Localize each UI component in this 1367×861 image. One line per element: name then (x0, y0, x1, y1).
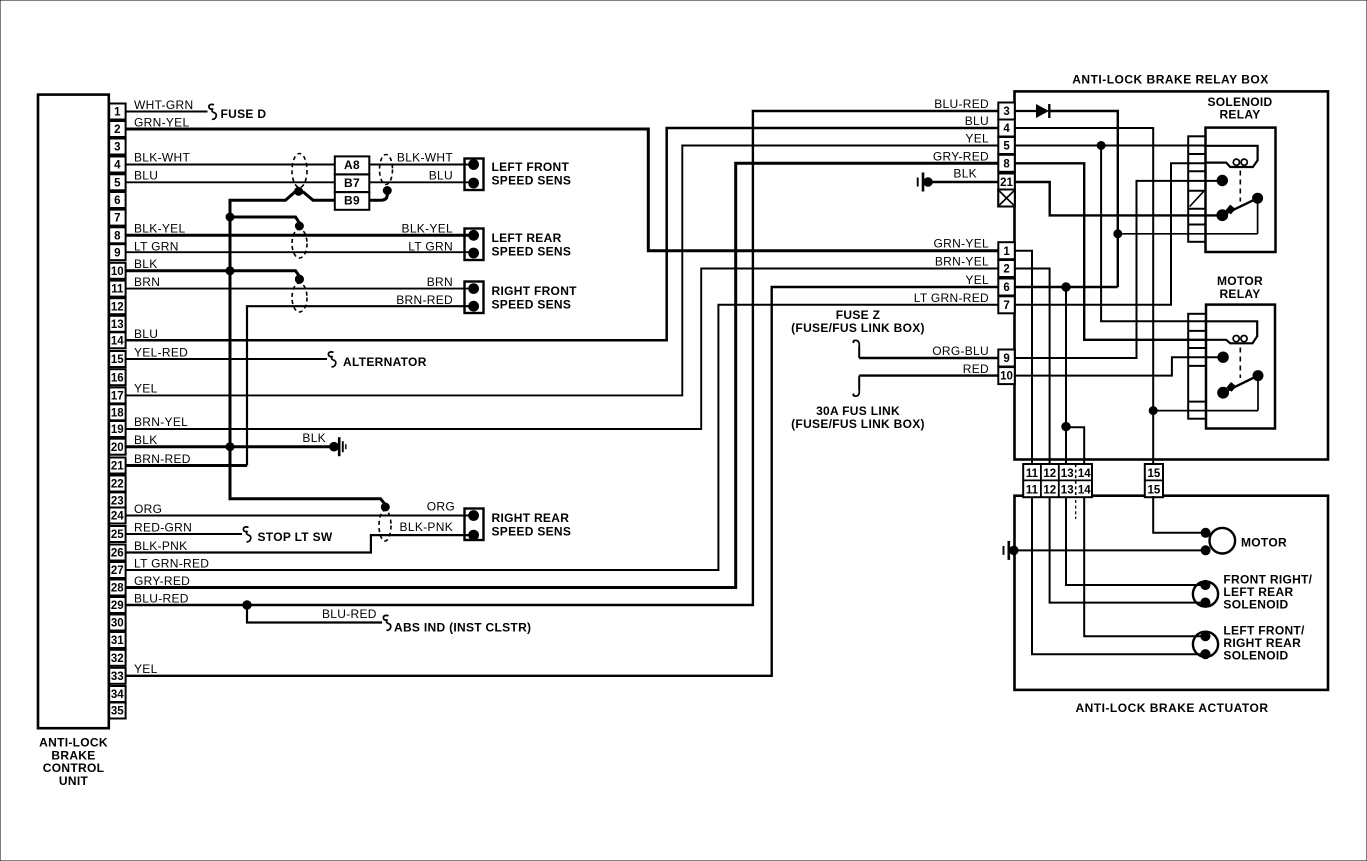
svg-text:9: 9 (114, 247, 120, 259)
svg-text:LT GRN-RED: LT GRN-RED (914, 291, 989, 305)
svg-text:14: 14 (1078, 485, 1091, 497)
svg-text:5: 5 (1003, 141, 1010, 153)
svg-text:BRN-YEL: BRN-YEL (134, 415, 188, 429)
svg-text:2: 2 (1003, 264, 1009, 276)
svg-text:BLK-PNK: BLK-PNK (134, 539, 187, 553)
svg-text:1: 1 (1003, 246, 1010, 258)
svg-text:(FUSE/FUS LINK BOX): (FUSE/FUS LINK BOX) (791, 417, 925, 431)
svg-text:12: 12 (111, 301, 124, 313)
svg-text:RELAY: RELAY (1219, 108, 1260, 122)
svg-text:LT GRN: LT GRN (134, 239, 179, 253)
svg-text:A8: A8 (344, 158, 360, 172)
svg-text:YEL: YEL (134, 662, 158, 676)
svg-text:YEL-RED: YEL-RED (134, 345, 188, 359)
svg-text:22: 22 (111, 479, 124, 491)
svg-text:BLU: BLU (134, 327, 158, 341)
svg-text:SOLENOID: SOLENOID (1223, 648, 1288, 662)
svg-text:SPEED SENS: SPEED SENS (492, 525, 572, 539)
svg-text:24: 24 (111, 511, 124, 523)
svg-text:23: 23 (111, 496, 124, 508)
svg-text:14: 14 (111, 335, 124, 347)
svg-text:BLK: BLK (134, 433, 158, 447)
svg-text:30: 30 (111, 618, 124, 630)
svg-text:11: 11 (111, 284, 124, 296)
svg-text:3: 3 (114, 142, 120, 154)
svg-text:6: 6 (114, 195, 120, 207)
svg-text:BRN-YEL: BRN-YEL (935, 255, 989, 269)
svg-text:28: 28 (111, 583, 124, 595)
svg-text:YEL: YEL (134, 382, 158, 396)
svg-text:SPEED SENS: SPEED SENS (492, 298, 572, 312)
svg-text:ORG: ORG (427, 500, 455, 514)
svg-text:BLK: BLK (134, 257, 158, 271)
svg-text:FUSE Z: FUSE Z (836, 308, 880, 322)
svg-text:B7: B7 (344, 176, 360, 190)
svg-text:BLK: BLK (302, 431, 326, 445)
svg-text:BLU-RED: BLU-RED (934, 97, 989, 111)
svg-text:B9: B9 (344, 194, 360, 208)
svg-text:27: 27 (111, 565, 124, 577)
svg-text:30A FUS LINK: 30A FUS LINK (816, 404, 900, 418)
svg-text:10: 10 (111, 266, 124, 278)
svg-text:UNIT: UNIT (59, 774, 89, 788)
svg-text:GRY-RED: GRY-RED (933, 149, 989, 163)
svg-text:17: 17 (111, 391, 124, 403)
svg-text:33: 33 (111, 671, 124, 683)
svg-text:12: 12 (1043, 468, 1056, 480)
svg-text:15: 15 (1148, 468, 1161, 480)
svg-text:21: 21 (1000, 177, 1013, 189)
svg-text:4: 4 (114, 160, 121, 172)
svg-text:6: 6 (1003, 282, 1009, 294)
svg-text:RIGHT FRONT: RIGHT FRONT (492, 284, 578, 298)
svg-text:2: 2 (114, 124, 120, 136)
svg-text:31: 31 (111, 635, 124, 647)
svg-text:ALTERNATOR: ALTERNATOR (343, 355, 427, 369)
svg-text:3: 3 (1003, 106, 1009, 118)
svg-text:5: 5 (114, 177, 121, 189)
svg-text:MOTOR: MOTOR (1241, 536, 1287, 550)
svg-text:RIGHT REAR: RIGHT REAR (492, 511, 570, 525)
svg-text:BLK-WHT: BLK-WHT (134, 151, 190, 165)
svg-text:25: 25 (111, 529, 124, 541)
svg-text:STOP LT SW: STOP LT SW (258, 530, 333, 544)
svg-text:10: 10 (1000, 371, 1013, 383)
svg-text:GRN-YEL: GRN-YEL (134, 115, 189, 129)
svg-text:BLK: BLK (953, 167, 977, 181)
svg-text:1: 1 (114, 107, 121, 119)
svg-text:GRN-YEL: GRN-YEL (934, 237, 989, 251)
svg-text:4: 4 (1003, 123, 1010, 135)
svg-text:15: 15 (1148, 485, 1161, 497)
svg-text:BLU-RED: BLU-RED (134, 592, 189, 606)
svg-text:ORG-BLU: ORG-BLU (932, 344, 989, 358)
svg-text:BLU-RED: BLU-RED (322, 607, 377, 621)
svg-text:BRN-RED: BRN-RED (396, 293, 453, 307)
svg-text:ABS IND (INST CLSTR): ABS IND (INST CLSTR) (394, 621, 531, 635)
svg-text:ORG: ORG (134, 502, 162, 516)
svg-text:14: 14 (1078, 468, 1091, 480)
svg-text:BRN: BRN (427, 275, 453, 289)
svg-text:21: 21 (111, 461, 124, 473)
svg-text:12: 12 (1043, 485, 1056, 497)
svg-text:GRY-RED: GRY-RED (134, 574, 190, 588)
svg-text:34: 34 (111, 689, 124, 701)
svg-text:SPEED SENS: SPEED SENS (492, 174, 572, 188)
svg-text:YEL: YEL (965, 132, 989, 146)
svg-text:LEFT FRONT: LEFT FRONT (492, 160, 570, 174)
svg-text:LT GRN: LT GRN (408, 239, 453, 253)
svg-text:WHT-GRN: WHT-GRN (134, 98, 193, 112)
svg-text:BLK-YEL: BLK-YEL (402, 222, 453, 236)
svg-text:13: 13 (1061, 485, 1074, 497)
svg-text:15: 15 (111, 354, 124, 366)
svg-text:29: 29 (111, 600, 124, 612)
svg-text:RED-GRN: RED-GRN (134, 521, 192, 535)
svg-text:BLK-YEL: BLK-YEL (134, 222, 185, 236)
svg-text:9: 9 (1003, 353, 1009, 365)
svg-text:26: 26 (111, 548, 124, 560)
svg-text:BLU: BLU (134, 169, 158, 183)
svg-text:20: 20 (111, 442, 124, 454)
svg-text:BLK-WHT: BLK-WHT (397, 151, 453, 165)
svg-text:BLU: BLU (429, 169, 453, 183)
svg-text:13: 13 (111, 319, 124, 331)
svg-text:ANTI-LOCK BRAKE ACTUATOR: ANTI-LOCK BRAKE ACTUATOR (1075, 701, 1268, 715)
svg-text:SOLENOID: SOLENOID (1223, 598, 1288, 612)
svg-text:7: 7 (1003, 300, 1009, 312)
svg-text:RELAY: RELAY (1219, 287, 1260, 301)
svg-text:ANTI-LOCK BRAKE RELAY BOX: ANTI-LOCK BRAKE RELAY BOX (1072, 73, 1269, 87)
svg-text:35: 35 (111, 706, 124, 718)
svg-text:11: 11 (1026, 468, 1039, 480)
svg-text:SPEED SENS: SPEED SENS (492, 245, 572, 259)
svg-text:11: 11 (1026, 485, 1039, 497)
svg-text:19: 19 (111, 424, 124, 436)
svg-text:LEFT REAR: LEFT REAR (492, 231, 562, 245)
svg-text:BRN-RED: BRN-RED (134, 452, 191, 466)
svg-text:8: 8 (1003, 158, 1010, 170)
svg-text:BRN: BRN (134, 275, 160, 289)
svg-text:RED: RED (963, 362, 989, 376)
svg-text:7: 7 (114, 213, 120, 225)
svg-text:FUSE D: FUSE D (221, 107, 267, 121)
svg-text:LT GRN-RED: LT GRN-RED (134, 556, 209, 570)
svg-text:(FUSE/FUS LINK BOX): (FUSE/FUS LINK BOX) (791, 321, 925, 335)
svg-text:16: 16 (111, 372, 124, 384)
svg-text:18: 18 (111, 407, 124, 419)
svg-text:32: 32 (111, 653, 124, 665)
svg-text:YEL: YEL (965, 273, 989, 287)
svg-text:13: 13 (1061, 468, 1074, 480)
svg-text:8: 8 (114, 230, 121, 242)
svg-text:BLK-PNK: BLK-PNK (400, 520, 453, 534)
svg-text:BLU: BLU (965, 114, 989, 128)
